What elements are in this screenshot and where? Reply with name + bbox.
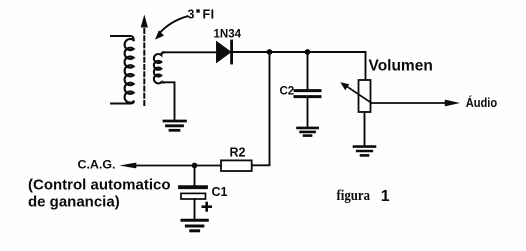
svg-text:1: 1: [381, 188, 390, 205]
wire secondary bottom lead to ground: [164, 82, 175, 119]
wire top rail diode to potentiometer corner: [233, 51, 366, 53]
transformer T1 core arrow head: [141, 15, 148, 28]
wire secondary top lead to diode anode: [163, 51, 217, 53]
leader arrow curve to 3a FI label: [159, 16, 188, 34]
transformer T1 primary winding: [125, 39, 134, 103]
svg-text:R2: R2: [230, 146, 246, 160]
wire node to C2 top plate: [307, 52, 309, 89]
label + polarity of C1: [202, 202, 213, 212]
leader arrow head: [155, 30, 164, 39]
svg-text:C1: C1: [212, 185, 228, 199]
svg-text:(Control automatico: (Control automatico: [28, 176, 171, 193]
node junction dot (C.A.G. / C1): [192, 163, 198, 169]
C.A.G. arrow head: [119, 163, 136, 169]
diode D1 cathode bar: [230, 41, 233, 63]
capacitor C1 bottom plate (hollow box): [181, 193, 206, 199]
transformer T1 primary bottom lead: [111, 101, 134, 103]
node junction dot (C2 tap): [305, 49, 311, 55]
svg-text:C.A.G.: C.A.G.: [78, 160, 116, 172]
svg-text:C2: C2: [280, 86, 295, 98]
potentiometer body (Volumen): [359, 80, 371, 112]
svg-text:de ganancia): de ganancia): [28, 194, 120, 211]
wire C2 bottom plate to ground: [307, 98, 309, 127]
ground symbol (C1): [182, 220, 207, 231]
svg-text:Volumen: Volumen: [369, 58, 433, 75]
wire R2 to C.A.G. node: [136, 165, 221, 167]
wire potentiometer bottom to ground: [364, 112, 366, 145]
svg-text:1N34: 1N34: [214, 29, 242, 41]
svg-text:figura: figura: [337, 188, 371, 204]
svg-text:FI: FI: [203, 8, 215, 22]
wire vertical from detector node down to R2: [252, 52, 270, 165]
wire C1 to ground: [194, 199, 196, 218]
audio output arrow head: [445, 100, 460, 107]
transformer T1 primary top lead: [111, 36, 134, 40]
ground symbol (C2): [298, 128, 318, 136]
diode D1 1N34 triangle: [217, 43, 230, 62]
potentiometer wiper arrow head: [340, 82, 349, 90]
ground symbol (transformer secondary): [164, 121, 186, 130]
wire wiper to audio output: [371, 102, 447, 104]
potentiometer wiper diagonal line: [346, 86, 372, 104]
resistor R2 body: [221, 160, 252, 171]
capacitor C1 top plate (filled bar): [180, 185, 206, 189]
ground symbol (potentiometer): [354, 147, 375, 156]
svg-text:3: 3: [188, 8, 195, 22]
svg-text:Áudio: Áudio: [466, 95, 498, 110]
wire node down to C1: [194, 166, 196, 186]
capacitor C2 plates: [295, 91, 320, 97]
transformer T1 adjustable core dashed line: [143, 29, 145, 108]
wire top rail down to potentiometer: [365, 52, 367, 80]
node junction dot (detector output): [267, 49, 273, 55]
transformer T1 secondary winding: [154, 52, 164, 83]
